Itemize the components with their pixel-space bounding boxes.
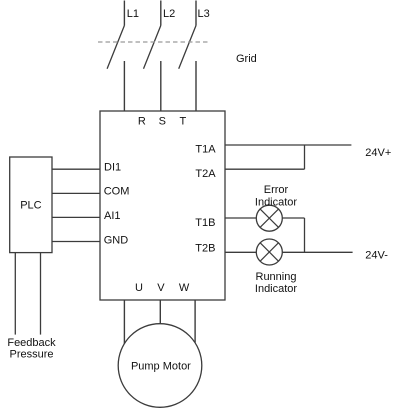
wire: feedback pressure sensor line 2 — [40, 253, 42, 335]
svg-text:Grid: Grid — [236, 53, 257, 65]
lamp H2 running indicator — [256, 239, 282, 265]
svg-text:T2A: T2A — [195, 168, 216, 180]
lamp H1 error indicator — [256, 205, 282, 231]
svg-text:DI1: DI1 — [104, 161, 121, 173]
switch Q2 blade (L2 disconnect) — [144, 26, 161, 69]
svg-text:L2: L2 — [163, 8, 175, 20]
svg-text:W: W — [179, 282, 190, 294]
svg-text:AI1: AI1 — [104, 210, 121, 222]
wire: T1A to 24V+ — [225, 144, 351, 146]
svg-text:24V+: 24V+ — [365, 147, 391, 159]
svg-text:T1A: T1A — [195, 144, 216, 156]
wire: switch L2 to drive terminal S — [160, 61, 162, 111]
svg-text:Indicator: Indicator — [255, 197, 298, 209]
svg-text:S: S — [159, 115, 166, 127]
switch Q1 blade (L1 disconnect) — [107, 26, 124, 69]
wire: switch L1 to drive terminal R — [123, 61, 125, 111]
wire: T2B to running lamp — [225, 251, 256, 253]
svg-text:COM: COM — [104, 186, 130, 198]
wire: PLC to DI1 — [52, 168, 100, 170]
wire: connector error lamp down to 24V- rail — [304, 218, 306, 252]
wire: error lamp to down connector — [282, 217, 304, 219]
wire: T1B to error lamp — [225, 217, 256, 219]
dashed gang link of disconnect switch — [98, 41, 210, 43]
wire: PLC to COM — [52, 192, 100, 194]
wire: drive U to motor — [123, 300, 125, 344]
svg-text:Feedback: Feedback — [7, 337, 56, 349]
wire: drive W to motor — [194, 300, 196, 343]
wire: L3 supply stub — [195, 1, 197, 26]
svg-text:PLC: PLC — [20, 199, 41, 211]
svg-text:R: R — [138, 115, 146, 127]
wire: T2A out of drive — [225, 168, 305, 170]
svg-text:24V-: 24V- — [365, 249, 388, 261]
wire: running lamp to 24V- — [282, 251, 352, 253]
svg-text:Running: Running — [256, 271, 297, 283]
pump motor M1 — [118, 324, 202, 408]
svg-text:U: U — [135, 282, 143, 294]
PLC box — [10, 157, 52, 253]
svg-text:L1: L1 — [127, 8, 139, 20]
svg-text:Pump Motor: Pump Motor — [131, 361, 191, 373]
VFD drive box U1 — [100, 111, 225, 300]
svg-text:T: T — [180, 115, 187, 127]
wire: feedback pressure sensor line 1 — [14, 253, 16, 335]
wire: switch L3 to drive terminal T — [195, 61, 197, 111]
wire: connector T2A up to T1A rail — [304, 145, 306, 169]
svg-text:Pressure: Pressure — [9, 349, 53, 361]
svg-text:T1B: T1B — [195, 217, 215, 229]
wire: PLC to AI1 — [52, 216, 100, 218]
wire: drive V to motor — [159, 300, 161, 324]
svg-text:V: V — [157, 282, 165, 294]
svg-text:GND: GND — [104, 235, 129, 247]
svg-text:Error: Error — [264, 184, 289, 196]
switch Q3 blade (L3 disconnect) — [179, 26, 196, 69]
wire: L2 supply stub — [160, 1, 162, 26]
svg-text:T2B: T2B — [195, 242, 215, 254]
svg-text:Indicator: Indicator — [255, 283, 298, 295]
wire: L1 supply stub — [123, 1, 125, 26]
wire: PLC to GND — [52, 241, 100, 243]
svg-text:L3: L3 — [198, 8, 210, 20]
